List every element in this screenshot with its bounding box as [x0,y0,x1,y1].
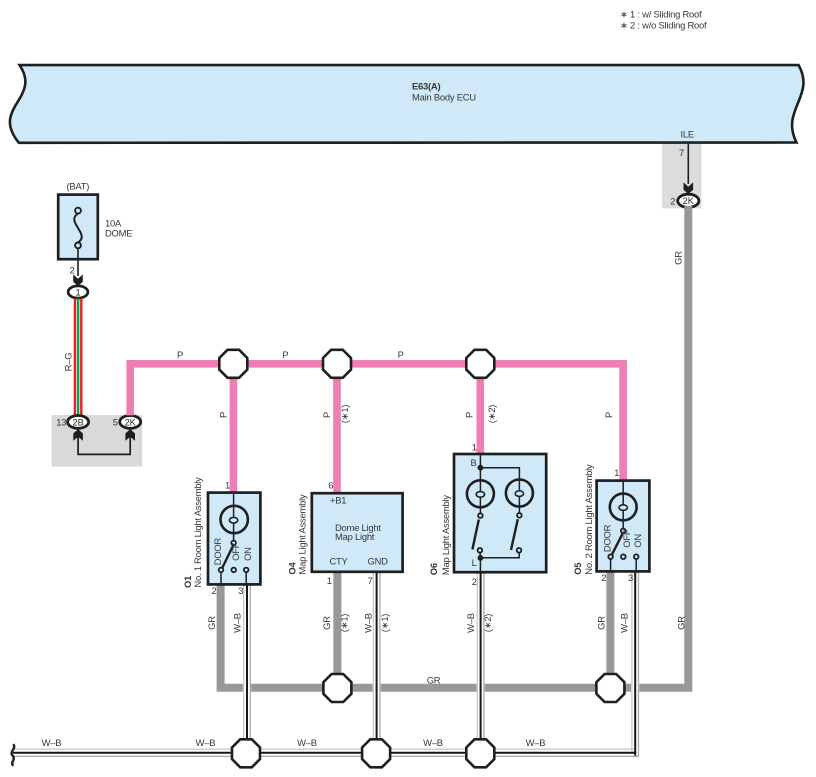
svg-text:Main Body ECU: Main Body ECU [412,91,476,102]
arrow up into 2K [125,429,135,440]
connector 1 [68,286,88,298]
svg-text:7: 7 [368,575,373,586]
svg-text:2: 2 [472,576,477,587]
svg-text:ILE: ILE [681,129,694,140]
svg-text:2B: 2B [72,417,83,427]
wire W-B from O4 GND [373,572,381,754]
svg-text:OFF: OFF [621,529,632,548]
svg-text:O5: O5 [572,563,583,575]
junction octagon P bus 2 [323,350,351,378]
svg-text:P: P [464,412,475,418]
svg-text:1: 1 [75,287,80,297]
svg-text:GR: GR [321,616,332,630]
svg-text:2K: 2K [125,417,137,427]
arrow into connector 1 [73,274,83,286]
svg-text:5: 5 [113,416,118,427]
svg-text:DOME: DOME [105,227,132,238]
svg-text:(∗1): (∗1) [379,614,390,633]
break squiggle (W-B bus left end) [12,744,15,766]
component O5 No.2 Room Light Assembly [597,481,650,572]
svg-text:Map Light Assembly: Map Light Assembly [440,495,451,575]
svg-text:2K: 2K [683,196,695,206]
svg-text:(∗1): (∗1) [339,614,350,633]
svg-text:13: 13 [56,416,66,427]
junction box (gray) [52,415,143,467]
svg-text:W–B: W–B [196,737,216,748]
svg-text:DOOR: DOOR [602,524,613,552]
wire R-G [75,298,81,415]
junction octagon W-B bus below O4 [362,739,390,767]
svg-text:2: 2 [212,585,217,596]
svg-text:OFF: OFF [230,542,241,561]
svg-text:GR: GR [676,616,687,630]
svg-text:P: P [603,412,614,418]
svg-text:No. 1 Room Light Assembly: No. 1 Room Light Assembly [192,477,203,588]
wire P drop to O1 [230,364,238,493]
ILE connector shading (gray) [662,143,702,209]
connector 2B [68,416,89,429]
svg-text:O1: O1 [182,576,193,588]
svg-text:2: 2 [70,265,75,276]
svg-text:∗ 1 : w/ Sliding Roof: ∗ 1 : w/ Sliding Roof [620,9,702,20]
svg-text:GR: GR [596,616,607,630]
arrow into connector 2K [684,182,694,194]
component O1 No.1 Room Light Assembly [208,493,260,585]
svg-text:W–B: W–B [42,737,62,748]
wire P drop to O6 [476,364,484,455]
junction octagon W-B bus below O6 [466,739,494,767]
svg-text:GR: GR [427,675,441,686]
svg-text:1: 1 [614,467,619,478]
wire P drop to O4 [333,364,341,494]
junction octagon GR bus below O5 [596,674,624,702]
wire W-B from O5 [631,571,639,757]
svg-text:P: P [282,349,288,360]
svg-text:P: P [217,412,228,418]
component O4 Map Light Assembly (Dome Light Map Light) [312,493,403,572]
junction octagon GR bus below O4 [323,674,351,702]
svg-text:1: 1 [327,575,332,586]
junction octagon P bus 1 [219,350,247,378]
wire W-B from O6 [477,572,485,753]
svg-text:3: 3 [238,585,243,596]
svg-text:ON: ON [632,534,643,548]
svg-text:W–B: W–B [232,613,243,633]
svg-text:1: 1 [472,442,477,453]
svg-text:3: 3 [628,572,633,583]
svg-text:∗ 2 : w/o Sliding Roof: ∗ 2 : w/o Sliding Roof [620,20,707,31]
svg-text:W–B: W–B [363,613,374,633]
component O6 Map Light Assembly [454,454,546,572]
wire GR from ILE down and across to O1 [221,206,689,688]
svg-text:W–B: W–B [297,737,317,748]
link wire between 2B and 2K [78,428,130,454]
fuse symbol [75,208,81,214]
junction octagon W-B bus below O1 [232,739,260,767]
svg-text:6: 6 [328,480,333,491]
svg-text:GR: GR [673,251,684,265]
svg-text:(∗2): (∗2) [486,405,497,424]
svg-text:W–B: W–B [619,613,630,633]
svg-text:1: 1 [225,479,230,490]
svg-text:P: P [177,349,183,360]
svg-text:W–B: W–B [526,737,546,748]
svg-text:(BAT): (BAT) [66,181,89,192]
wire W-B from O1 [243,584,251,753]
connector 2K (ILE) [678,194,699,207]
arrow up into 2B [73,429,83,440]
fuse DOME box [58,195,98,260]
svg-text:No. 2 Room Light Assembly: No. 2 Room Light Assembly [583,464,594,575]
wire W-B bus [13,749,638,756]
svg-text:ON: ON [242,547,253,561]
junction octagon P bus 3 [466,350,494,378]
svg-text:W–B: W–B [465,613,476,633]
svg-text:L: L [472,557,477,568]
svg-text:R–G: R–G [63,353,74,372]
svg-text:2: 2 [601,572,606,583]
svg-text:CTY: CTY [330,556,349,567]
svg-text:(∗1): (∗1) [339,405,350,424]
svg-text:Map Light: Map Light [335,531,375,542]
svg-text:O6: O6 [428,563,439,575]
svg-text:2: 2 [670,196,675,207]
wire fuse to connector 1 [77,248,79,276]
svg-text:7: 7 [679,147,684,158]
wire P bus [130,364,623,481]
svg-text:DOOR: DOOR [212,538,223,566]
svg-text:Map Light Assembly: Map Light Assembly [297,494,308,574]
svg-text:W–B: W–B [423,737,443,748]
svg-text:B: B [471,457,477,468]
wire GR from O4 CTY [333,571,341,688]
svg-text:+B1: +B1 [330,495,346,506]
svg-text:(∗2): (∗2) [482,614,493,633]
ECU band E63(A) Main Body ECU [10,65,804,143]
svg-text:GND: GND [368,556,389,567]
connector 2K (junction) [120,416,141,429]
svg-text:P: P [398,349,404,360]
svg-text:E63(A): E63(A) [412,81,440,92]
svg-text:P: P [321,412,332,418]
svg-text:GR: GR [206,616,217,630]
wire ILE pin 7 [687,144,689,184]
wire GR from O5 [606,571,614,689]
